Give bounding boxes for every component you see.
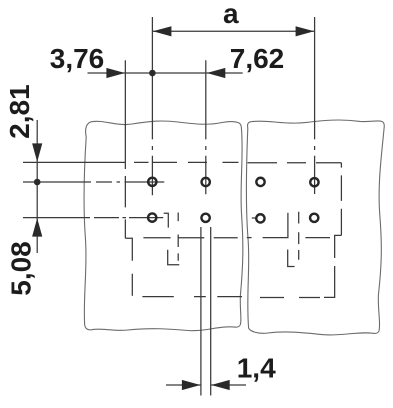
centerline column x=152.4 (a / 3,76 extension, dash-dot) (151, 17, 153, 195)
dashed housing inner stub dash board 2 (247, 237, 252, 239)
arrowhead 1,4 left (points right at x=200.9) (182, 380, 201, 390)
dashed housing outline: right end vertical x=341.4 (340, 163, 342, 236)
centerline row 2 (y=217.6) dash-dot (23, 217, 163, 219)
hole C1 (260.5,181.9) (256, 178, 264, 186)
dashed housing outline: left end vertical x=125.4 (124, 176, 126, 238)
svg-text:1,4: 1,4 (237, 353, 276, 384)
extension line x=125.4 (3,76 left extension) (124, 60, 126, 169)
hole B1 (152.2,217.6) (148, 213, 156, 221)
dashed housing outline: bottom edge, board 1 (142, 296, 242, 298)
centerline column x=205.8 (7,62 extension, dash-dot) (205, 60, 207, 194)
dashed housing inner vertical + corner x=288.6 board 2 (263, 213, 288, 238)
board 2 outline (right PCB piece, torn wavy edges) (246, 120, 384, 335)
hole D2 (314.2,217.8) (310, 214, 318, 222)
svg-text:2,81: 2,81 (4, 84, 35, 139)
arrowhead a right (296, 26, 315, 36)
junction dot at (37.2,182) (34, 179, 41, 186)
svg-text:a: a (223, 0, 239, 29)
arrowhead 2,81 (points down at y=162.4) (32, 143, 42, 162)
hole A1 (152.3,181.8) (148, 178, 156, 186)
arrowhead 5,08 (points up at y=217.6) (32, 218, 42, 237)
dashed housing inner vertical x=298.7 board 2 (298, 212, 300, 260)
dimension line 2,81 / 5,08 (x=37.2) (36, 120, 38, 253)
dashed housing inner horizontal y=237.3 board 2 (305, 237, 330, 239)
dashed housing outline: left end step corner (125, 238, 132, 261)
dashed housing inner stub corner board 1 (164, 213, 169, 227)
centerline column x=314.6 (a right extension, dash-dot) (314, 17, 316, 194)
svg-text:7,62: 7,62 (230, 43, 285, 74)
svg-text:3,76: 3,76 (50, 43, 105, 74)
dashed housing outline: left lower vertical x=132.3 (131, 274, 133, 296)
dashed housing outline: right end step corner (335, 235, 342, 258)
junction dot at (152.4,73) (149, 70, 156, 77)
dashed housing outline: top edge, board 2 (248, 162, 342, 164)
hole A2 (205.7,182.0) (202, 178, 210, 186)
arrowhead 7,62 (points left at x=206.3) (207, 68, 226, 78)
dashed housing inner horizontal y=237.7 board 1 (143, 237, 237, 239)
dashed housing outline: bottom edge, board 2 (260, 297, 320, 299)
dashed housing outline: top edge, board 1 (134, 161, 239, 163)
arrowhead 1,4 right (points left at x=210.7) (211, 380, 230, 390)
centerline row 2 stub on board 2 (252, 217, 257, 219)
hole D1 (314.4,182.2) (310, 178, 318, 186)
extension line y=162.4 (2,81 upper / housing front) (23, 161, 125, 163)
centerline row 1 (y=182) dash-dot (23, 181, 164, 183)
dashed housing outline: right lower vertical x=334.7 and bottom corner (324, 266, 335, 297)
hole B2 (205.6,217.8) (201, 214, 209, 222)
dimension line 1,4 (y=385) (166, 384, 246, 386)
svg-text:5,08: 5,08 (6, 241, 37, 296)
dashed housing inner L-corner board 1 (168, 250, 180, 265)
board 1 outline (left PCB piece, torn wavy edges) (84, 121, 243, 331)
hole diameter extension lines x=200.9 and x=210.7 (201, 227, 211, 396)
dimension line 3,76 / 7,62 (y=73) (88, 72, 243, 74)
dimension line a (y=31.3) (152, 30, 314, 32)
arrowhead a left (153, 26, 172, 36)
dashed housing inner vertical x=178.2 board 1 (177, 213, 179, 261)
hole C2 (260.4,218.4) (256, 214, 264, 222)
arrowhead 3,76 (points right at x=125.4) (106, 68, 125, 78)
dashed housing inner L-corner board 2 (288, 250, 295, 267)
